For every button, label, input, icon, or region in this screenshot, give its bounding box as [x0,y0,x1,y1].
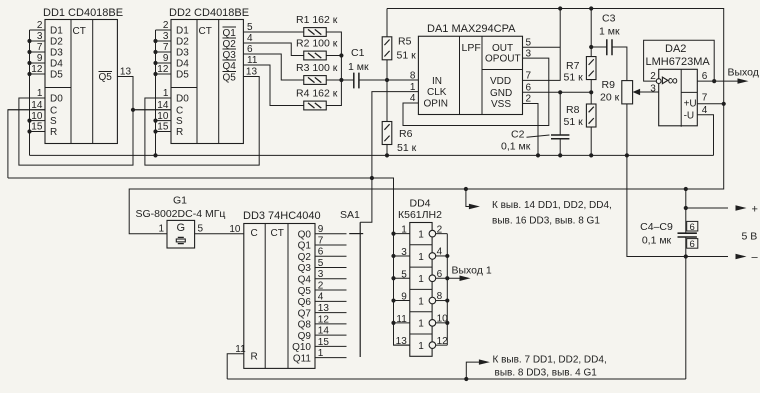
resistor R7 51 к [564,9,597,93]
wire DA2 +U (pin 7) to +5 riser [697,103,723,105]
junction dot output/feedback [712,79,716,83]
svg-text:Q6: Q6 [298,297,312,308]
junction dot R6 to V- rail [385,153,389,157]
svg-text:51 к: 51 к [397,50,417,62]
wire Выход 1 output [447,265,492,281]
wire DD1 input bus (pins 2,3,7,9,12,10,15) down to V- rail [29,30,31,155]
svg-text:DD3 74HC4040: DD3 74HC4040 [243,210,321,222]
junction dots on GND row [558,90,593,94]
resistor R2 100 к [296,38,338,60]
svg-text:D2: D2 [50,37,63,48]
svg-text:CT: CT [271,228,284,239]
wire DD4 output bus [446,234,448,346]
junction dot R7 to top rail [589,6,593,10]
svg-text:C: C [251,228,258,239]
svg-text:S: S [176,116,183,127]
wire DD2 input bus down to V- rail [155,30,157,155]
wires DD3 outputs Q0-Q11 to SA1 contacts [315,234,347,358]
junction dots DD4 input bus [391,232,395,325]
wire R9 bottom to V- rail and to minus terminal [627,104,686,257]
resistor R1 162 к [296,14,338,36]
svg-text:0,1 мк: 0,1 мк [501,141,531,153]
capacitor C1 1 мк [341,47,387,88]
svg-text:CT: CT [199,26,212,37]
wire DD2.6 to R3 [244,54,304,80]
svg-text:Q5: Q5 [298,286,312,297]
svg-text:Q9: Q9 [298,331,312,342]
junction dots on DD2 bus [153,39,157,158]
svg-text:6: 6 [702,71,708,82]
counter DD2 CD4018BE [134,7,259,144]
svg-text:LMH6723MA: LMH6723MA [646,56,711,68]
wire G1 pin 5 to DD3 C (pin 10) [195,233,244,235]
svg-text:Q7: Q7 [298,308,312,319]
resistor R6 51 к [382,80,416,155]
wire DD1 Q5(13) feedback to DD1 D0(1) and to DD2 C(14) [19,77,171,166]
svg-text:2: 2 [650,71,656,82]
svg-text:1 мк: 1 мк [348,61,369,73]
svg-text:D1: D1 [176,26,189,37]
svg-text:-U: -U [684,111,695,122]
inverters DD4 К561ЛН2 [394,198,449,357]
wire clock net: DD1.14 / DA1.1 / SA1 wiper / DD4 inputs [8,178,394,234]
svg-text:Выход: Выход [728,67,759,79]
capacitors C4-C9 0,1 мк [640,221,698,379]
resistor R5 51 к [382,9,416,81]
svg-text:SA1: SA1 [340,209,360,221]
svg-text:VSS: VSS [491,99,511,110]
svg-text:IN: IN [432,76,442,87]
svg-text:∞: ∞ [668,73,678,89]
svg-text:D5: D5 [50,70,63,81]
wire tap to supply note (lower) [466,359,490,379]
svg-text:6: 6 [690,222,695,233]
svg-text:Q3: Q3 [298,263,312,274]
svg-text:D2: D2 [176,37,189,48]
svg-text:51 к: 51 к [564,116,584,128]
wire ground rail (bottom) [227,378,686,380]
wire DA2 -U (pin 4) to V- rail [697,115,713,156]
svg-text:1 мк: 1 мк [599,26,620,38]
svg-text:D1: D1 [50,26,63,37]
junction dot R8 to V- rail [589,153,593,157]
wire DD2.4 to R2 [244,43,304,56]
wire tap to supply note (upper) [466,189,480,209]
wire SA1 wiper feed [360,178,372,222]
svg-text:К561ЛН2: К561ЛН2 [398,209,442,221]
svg-text:5 В: 5 В [742,231,758,243]
DD2 output labels Q1-Q5 and pin numbers [223,22,258,83]
junction dot R9/rail crossing [625,153,629,157]
junction dot VSS to rail [536,153,540,157]
svg-text:OPOUT: OPOUT [485,54,521,65]
svg-text:Выход 1: Выход 1 [452,265,492,277]
svg-text:R9: R9 [602,79,616,91]
svg-text:R: R [251,351,258,362]
svg-text:D3: D3 [176,48,189,59]
svg-text:C3: C3 [602,13,616,25]
svg-text:6: 6 [690,239,695,250]
svg-text:1: 1 [418,319,424,330]
svg-text:1: 1 [418,341,424,352]
svg-text:–: – [752,252,759,264]
junction dots on DD1 bus [27,39,31,134]
junction dots on summing node [339,53,343,82]
svg-text:+U: +U [684,99,697,110]
svg-text:DD2 CD4018BE: DD2 CD4018BE [169,7,249,19]
svg-text:Q3: Q3 [223,50,237,61]
svg-text:OPIN: OPIN [424,99,448,110]
svg-text:D3: D3 [50,48,63,59]
svg-text:C: C [176,105,183,116]
wire V- rail (VSS net) [30,154,714,156]
svg-text:R8: R8 [566,104,580,116]
svg-text:DA1 MAX294CPA: DA1 MAX294CPA [427,23,516,35]
DD1 output label Q5 (pin 13) [99,72,113,84]
wire minus terminal [686,254,747,259]
label К выв. 7 ... (lower supply note) [493,355,607,379]
svg-text:Q4: Q4 [223,61,237,72]
junction dot +U riser [722,102,726,106]
svg-text:1: 1 [418,252,424,263]
junction dots on +5 rail [464,187,688,191]
svg-text:C2: C2 [511,129,525,141]
svg-text:Q8: Q8 [298,320,312,331]
wire DA2 feedback loop output(6) to inverting input(2) [644,40,715,81]
svg-text:OUT: OUT [492,43,513,54]
svg-text:1: 1 [418,274,424,285]
junction dot DD1.13 to DD2.14 [131,108,135,112]
svg-text:выв. 8 DD3, выв. 4 G1: выв. 8 DD3, выв. 4 G1 [495,368,598,379]
resistor R4 162 к [296,88,338,110]
svg-text:1: 1 [418,230,424,241]
svg-text:1: 1 [418,296,424,307]
svg-text:DA2: DA2 [665,43,686,55]
wire +5 rail to plus terminal and C4-C9 column [686,189,747,233]
svg-text:C4–C9: C4–C9 [640,221,673,233]
svg-text:C1: C1 [351,47,365,59]
op-amp DA2 LMH6723MA [646,43,711,127]
wire C1/R5/R6 node to DA1 IN (pin 8) [387,79,418,81]
resistor R3 100 к [296,62,338,84]
svg-text:5: 5 [198,224,204,235]
svg-text:D4: D4 [50,59,63,70]
svg-text:+: + [752,204,758,216]
label 5 В [742,231,758,243]
wire DA1 VSS(2) to V- rail [523,104,539,156]
junction dot C3 to R7 riser [589,45,593,49]
svg-text:SG-8002DC-4 МГц: SG-8002DC-4 МГц [136,208,226,220]
svg-text:D0: D0 [50,94,63,105]
svg-text:G: G [177,222,186,234]
resistor R8 51 к [564,92,597,155]
svg-text:Q1: Q1 [298,241,312,252]
svg-text:20 к: 20 к [600,92,620,104]
svg-text:G1: G1 [173,195,187,207]
svg-text:Q4: Q4 [298,274,312,285]
capacitor C3 1 мк [591,13,627,81]
svg-text:1: 1 [158,224,164,235]
svg-text:R2 100 к: R2 100 к [296,38,338,50]
svg-text:R4 162 к: R4 162 к [296,88,338,100]
wire DD2.5 to R1 [244,31,304,33]
wire DD2 Q5(13) feedback to DD2 D0(1) [145,77,259,166]
switch SA1 [340,209,363,357]
junction dots DD4 output bus [445,254,449,325]
wire R9 wiper to DA2 pin 3 [633,89,659,96]
wire summing node column joining R1-R4 outputs [326,32,341,106]
svg-text:D4: D4 [176,59,189,70]
svg-text:Q2: Q2 [298,252,312,263]
svg-text:C: C [50,105,57,116]
svg-text:D5: D5 [176,70,189,81]
svg-text:3: 3 [650,83,656,94]
junction dot plus branch [684,206,688,210]
svg-text:7: 7 [702,92,708,103]
svg-text:R3 100 к: R3 100 к [296,62,338,74]
svg-text:Q5: Q5 [223,72,237,83]
svg-text:Q10: Q10 [292,342,311,353]
svg-text:GND: GND [490,88,512,99]
svg-text:S: S [50,116,57,127]
svg-text:DD4: DD4 [410,198,431,210]
svg-text:Q0: Q0 [298,229,312,240]
svg-text:К выв. 14 DD1, DD2, DD4,: К выв. 14 DD1, DD2, DD4, [492,200,612,211]
junction dot C2 to V- rail [558,153,562,157]
wire DA1 OUT(5) / VDD(7) to +5 top rail [523,9,561,81]
wire DA1 OPIN(4) to DA1 OPOUT(3) [403,58,549,125]
svg-text:R7: R7 [566,60,580,72]
junction dot R5/R6/C1/DA1.8 node [385,78,389,82]
svg-text:DD1 CD4018BE: DD1 CD4018BE [43,7,123,19]
svg-text:Q11: Q11 [293,353,312,364]
svg-text:выв. 16 DD3, выв. 8 G1: выв. 16 DD3, выв. 8 G1 [492,216,600,227]
capacitor C2 0,1 мк [501,92,569,155]
wire DD4 input bus [394,234,410,346]
svg-text:R5: R5 [398,36,412,48]
svg-text:К выв. 7 DD1, DD2, DD4,: К выв. 7 DD1, DD2, DD4, [493,355,607,366]
svg-text:R1 162 к: R1 162 к [296,14,338,26]
wire DA1 GND(6) to R7/R8 divider [523,91,592,93]
junction dot clock/wiper [370,176,374,180]
svg-text:Q1: Q1 [223,28,237,39]
svg-text:LPF: LPF [462,42,481,54]
label К выв. 14 ... (upper supply note) [492,200,612,227]
label plus terminal [752,204,758,216]
oscillator G1 SG-8002DC-4 МГц [136,195,226,249]
svg-text:Q5: Q5 [99,72,113,83]
filter DA1 MAX294CPA [410,23,532,115]
svg-text:R: R [176,127,183,138]
svg-text:CLK: CLK [427,87,447,98]
wire DD2.11 to R4 [244,65,304,106]
svg-text:10: 10 [229,224,241,235]
junction dot minus branch [684,254,688,258]
svg-text:0,1 мк: 0,1 мк [642,235,672,247]
label minus terminal [752,252,759,264]
svg-text:D0: D0 [176,94,189,105]
wire clock net to DA1 CLK (pin 1) [372,92,419,178]
counter DD1 CD4018BE [8,7,133,144]
counter DD3 74HC4040 [229,210,329,368]
svg-text:51 к: 51 к [397,142,417,154]
wire DD1 C(14) from clock net [8,110,45,178]
wire +5 net: G1 pin1, +5 rail, right riser, top rail to R5 [129,9,724,234]
junction dot ground note tap [464,377,468,381]
svg-text:51 к: 51 к [564,72,584,84]
svg-text:VDD: VDD [490,76,511,87]
junction dot OUT/VDD riser to top rail [558,6,562,10]
potentiometer R9 20 к [600,79,633,104]
wire DA2 output (pin 6) to Выход [697,67,759,84]
svg-text:CT: CT [73,26,86,37]
svg-text:R6: R6 [399,128,413,140]
svg-text:R: R [50,127,57,138]
svg-text:Q2: Q2 [223,39,237,50]
wire DD3 R (pin 11) to ground rail [227,354,244,379]
